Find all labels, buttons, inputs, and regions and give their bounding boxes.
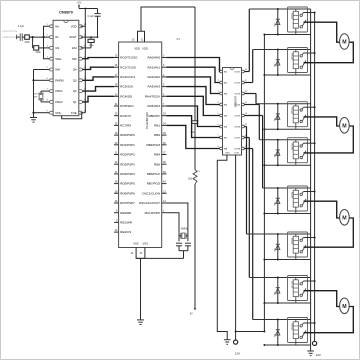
node A [31, 36, 33, 38]
wire contact rail B [314, 13, 316, 342]
relay RL3B [288, 102, 308, 130]
wire coil line relay 2 [253, 49, 311, 51]
svg-text:VRef: VRef [55, 57, 61, 61]
svg-text:OUT2: OUT2 [234, 83, 241, 85]
5V supply flag [190, 308, 196, 315]
wire RA4 to IN5 [167, 96, 220, 115]
svg-text:RB6/PGC: RB6/PGC [147, 172, 161, 176]
crystal X2 4MHz [179, 227, 188, 242]
svg-text:Q1: Q1 [73, 100, 77, 104]
wire StD to RC0 [83, 58, 115, 59]
wire coil return relay 5 [264, 213, 310, 215]
motor M1 [340, 34, 350, 50]
wire to IN- node [29, 36, 49, 38]
wire RA3 to IN4 [167, 87, 220, 105]
wire OUT1 routing [244, 9, 249, 72]
svg-text:RB0/INT: RB0/INT [148, 114, 160, 118]
wire PWDN [34, 79, 50, 81]
resistor R2 100k GS feedback [33, 37, 50, 54]
resistor R1 100k [24, 35, 30, 44]
wire RA1 to IN2 [167, 67, 220, 82]
wire ESt [81, 47, 91, 49]
wire coil return relay 8 [264, 344, 310, 346]
svg-text:0.1µF: 0.1µF [18, 25, 25, 28]
wire relay 7 common [304, 291, 340, 307]
relay RL8B [288, 318, 308, 346]
wire coil line relay 1 [249, 8, 310, 10]
wire coil return relay 3 [264, 128, 310, 130]
relay RL4B [288, 138, 308, 166]
svg-text:St/GT: St/GT [69, 35, 77, 39]
wire Q1 to RC4 [83, 96, 115, 102]
svg-text:OUT6: OUT6 [234, 127, 241, 129]
wire relay 4 NO contact [303, 142, 314, 144]
capacitor C4 [176, 243, 182, 251]
microcontroller U1 PIC16F877A [114, 38, 181, 248]
relay RL5B [288, 186, 308, 214]
svg-text:1N4: 1N4 [273, 118, 275, 121]
svg-text:1N4: 1N4 [273, 248, 275, 251]
svg-text:OUT1: OUT1 [234, 72, 241, 74]
relay RL1B [288, 7, 308, 35]
svg-text:Q3: Q3 [73, 78, 77, 82]
wire relay 4 common [304, 126, 354, 153]
svg-text:RE1/WR: RE1/WR [120, 221, 133, 225]
wire RA2 to IN3 [167, 77, 220, 94]
svg-text:RD2/PSP2: RD2/PSP2 [120, 153, 135, 157]
DTMF decoder U2 CM8870 [47, 11, 87, 116]
svg-text:INH: INH [55, 68, 60, 72]
wire relay 2 common [304, 42, 354, 63]
node 12V rail B [313, 341, 317, 345]
svg-text:0.1µF: 0.1µF [88, 16, 95, 18]
driver U3 ULN2803 [217, 68, 247, 156]
wire relay 6 NO contact [303, 237, 314, 239]
svg-text:RD7/PSP7: RD7/PSP7 [120, 201, 135, 205]
svg-text:1N4: 1N4 [273, 292, 275, 295]
wire relay 5 common [304, 201, 340, 218]
wire coil return relay 4 [264, 164, 310, 166]
svg-text:RB2: RB2 [154, 133, 160, 137]
svg-text:100k: 100k [35, 51, 41, 54]
wire 12V coil rail [263, 35, 265, 332]
svg-text:RL4B: RL4B [291, 144, 295, 151]
wire INH [34, 69, 50, 71]
ground [137, 320, 144, 325]
svg-text:RL1B: RL1B [291, 13, 295, 20]
svg-text:M: M [342, 123, 346, 129]
svg-text:TOE: TOE [71, 111, 77, 115]
svg-text:OSC2: OSC2 [55, 100, 63, 104]
svg-text:VSS: VSS [133, 242, 139, 246]
diode D5 1N4007 [273, 187, 280, 215]
svg-text:M: M [342, 215, 346, 221]
svg-text:VDD: VDD [134, 47, 140, 51]
svg-text:Input from the: Input from the [3, 30, 18, 33]
svg-text:IC1: IC1 [176, 38, 180, 41]
svg-text:RD1/PSP1: RD1/PSP1 [120, 143, 135, 147]
svg-text:RC5/SDO: RC5/SDO [120, 104, 134, 108]
wire crystal ground [179, 251, 188, 259]
svg-text:COM: COM [234, 152, 239, 154]
svg-text:Q2: Q2 [73, 89, 77, 93]
svg-text:4MHz: 4MHz [181, 227, 188, 231]
motor M2 [340, 118, 350, 134]
svg-text:RC6/TX: RC6/TX [120, 114, 131, 118]
svg-text:OSC1: OSC1 [55, 89, 63, 93]
wire TOE [81, 112, 86, 114]
svg-text:1N4: 1N4 [273, 334, 275, 337]
svg-text:IN+: IN+ [55, 24, 60, 28]
diode D2 1N4007 [273, 49, 280, 77]
wire St/GT [81, 36, 98, 38]
wire [194, 184, 196, 308]
wire relay 8 NO contact [303, 322, 314, 324]
wire OUT2 routing [244, 50, 252, 83]
wire RB1 to IN8 [167, 125, 220, 148]
relay RL7B [288, 276, 308, 304]
svg-text:RC1/T1OSI: RC1/T1OSI [120, 65, 136, 69]
svg-text:RE2/CS: RE2/CS [120, 230, 131, 234]
resistor R3 300k [88, 37, 95, 48]
wire coil line relay 8 [253, 319, 311, 321]
wire IN+ tie [44, 26, 50, 58]
svg-text:5V: 5V [190, 312, 193, 315]
diode D7 1N4007 [273, 277, 280, 305]
wire OUT4 routing [244, 105, 259, 140]
svg-text:GND: GND [225, 152, 230, 154]
motor M4 [340, 298, 350, 314]
wire OUT6 routing [244, 127, 246, 235]
wire VSS-TOE loop [62, 113, 82, 119]
wire MCLR to crystal [167, 213, 180, 233]
capacitor C2 0.1uF [88, 9, 101, 38]
wire Q4 to RC1 [83, 67, 115, 69]
wire Q2 to RC3 [83, 87, 115, 92]
wire [17, 36, 20, 38]
svg-text:PWDN: PWDN [55, 78, 63, 82]
svg-text:RD4/PSP4: RD4/PSP4 [120, 172, 135, 176]
motor M3 [340, 210, 350, 226]
diode D4 1N4007 [273, 139, 280, 167]
wire 12V feed [236, 331, 265, 333]
wire Q3 to RC2 [83, 77, 115, 80]
wire OUT3 routing [244, 94, 256, 104]
wire relay 1 NO contact [303, 12, 314, 14]
wire RB0 to IN7 [167, 116, 220, 138]
svg-text:RB7/PGD: RB7/PGD [147, 182, 161, 186]
svg-text:RL2B: RL2B [291, 53, 295, 60]
svg-text:StD: StD [72, 57, 77, 61]
svg-text:OSC2/CLKOUT: OSC2/CLKOUT [139, 201, 160, 205]
svg-text:12V: 12V [235, 351, 240, 355]
wire [194, 123, 196, 169]
diode D3 1N4007 [273, 103, 280, 131]
svg-text:RB3/PGM: RB3/PGM [146, 143, 160, 147]
wire coil return relay 2 [264, 74, 310, 76]
wire VDD rail down [194, 7, 196, 121]
wire ULN COM to 12V [235, 155, 237, 340]
wire relay 2 NO contact [303, 52, 314, 54]
svg-text:RA0/AN0: RA0/AN0 [147, 56, 160, 60]
svg-text:telephone line: telephone line [3, 36, 19, 39]
wire relay 8 common [304, 307, 354, 333]
svg-text:RB4: RB4 [154, 153, 160, 157]
wire VSS [34, 112, 50, 114]
wire coil return relay 7 [264, 302, 310, 304]
svg-text:RB5: RB5 [154, 162, 160, 166]
wire coil line relay 6 [247, 233, 311, 235]
relay RL2B [288, 48, 308, 76]
wire coil line relay 3 [256, 103, 311, 105]
wire coil line relay 5 [263, 187, 311, 189]
svg-text:OUT4: OUT4 [234, 105, 241, 107]
svg-text:GS: GS [55, 46, 59, 50]
svg-text:1N4: 1N4 [273, 23, 275, 26]
svg-text:RL8B: RL8B [291, 323, 295, 330]
svg-text:RL5B: RL5B [291, 192, 295, 199]
resistor R4 10k [188, 170, 201, 184]
svg-text:RB1: RB1 [154, 124, 160, 128]
ground [30, 118, 37, 123]
svg-text:1N4: 1N4 [273, 64, 275, 67]
wire relay 5 NO contact [303, 191, 314, 193]
wire coil return relay 6 [264, 259, 310, 261]
svg-text:VDD: VDD [71, 24, 77, 28]
wire relay 3 NO contact [303, 106, 314, 108]
svg-text:VSS: VSS [143, 242, 149, 246]
svg-text:RC0/T1OSO: RC0/T1OSO [120, 56, 138, 60]
svg-text:RD5/PSP5: RD5/PSP5 [120, 182, 135, 186]
svg-text:RA1/AN1: RA1/AN1 [147, 65, 160, 69]
wire +5V rail top [79, 8, 98, 10]
svg-text:CM8870: CM8870 [59, 11, 73, 15]
svg-text:Q4: Q4 [73, 68, 77, 72]
svg-text:MCLR/VPP: MCLR/VPP [145, 211, 160, 215]
svg-text:OUT3: OUT3 [234, 94, 241, 96]
relay RL6B [288, 232, 308, 260]
svg-text:RL3B: RL3B [291, 108, 295, 115]
svg-text:OSC1/CLKIN: OSC1/CLKIN [142, 191, 160, 195]
svg-text:RA4/T0CKI: RA4/T0CKI [145, 94, 160, 98]
wire relay 6 common [304, 218, 354, 247]
wire OUT8 routing [244, 149, 252, 320]
input terminal [16, 35, 18, 40]
svg-text:MHz: MHz [33, 97, 37, 99]
svg-text:RA2/AN2: RA2/AN2 [147, 75, 160, 79]
diode D6 1N4007 [273, 233, 280, 261]
svg-text:OUT8: OUT8 [234, 149, 241, 151]
+5V supply flag [77, 1, 82, 9]
ground [307, 351, 314, 356]
svg-text:100k: 100k [24, 41, 30, 44]
wire ULN GND [217, 155, 227, 339]
diode D8 1N4007 [273, 319, 280, 347]
wire OUT5 routing [244, 116, 262, 189]
svg-text:ESt: ESt [72, 46, 77, 50]
svg-text:OUT5: OUT5 [234, 116, 241, 118]
wire contact rail A [310, 9, 312, 351]
wire [22, 36, 25, 38]
node 12V [234, 340, 238, 344]
ground [224, 340, 231, 345]
wire coil return relay 1 [264, 34, 310, 36]
wire VDD pins 32 11 [132, 7, 195, 42]
svg-text:RD6/PSP6: RD6/PSP6 [120, 191, 135, 195]
svg-text:RA5/AN4: RA5/AN4 [147, 104, 160, 108]
svg-text:M: M [342, 304, 346, 310]
svg-text:VSS: VSS [55, 111, 61, 115]
svg-text:1N4: 1N4 [273, 202, 275, 205]
crystal X1 3.58MHz [33, 91, 49, 102]
capacitor C1 0.1uF [18, 25, 25, 41]
wire OSC2 to crystal [167, 203, 188, 233]
svg-text:RC4/SDI: RC4/SDI [120, 94, 132, 98]
wire VSS pins 12 31 [131, 248, 184, 320]
capacitor C5 [185, 243, 191, 251]
svg-text:12V: 12V [316, 353, 321, 357]
svg-text:RE0/RD: RE0/RD [120, 211, 132, 215]
wire relay 3 common [304, 117, 340, 126]
svg-text:RL6B: RL6B [291, 238, 295, 245]
svg-text:1N4: 1N4 [273, 154, 275, 157]
svg-text:M: M [342, 40, 346, 46]
svg-text:RD3/PSP3: RD3/PSP3 [120, 162, 135, 166]
ground bus wire [33, 70, 35, 118]
svg-text:RC2/CCP1: RC2/CCP1 [120, 75, 135, 79]
svg-text:+5V: +5V [77, 1, 82, 5]
wire relay 7 NO contact [303, 280, 314, 282]
svg-text:RD0/PSP0: RD0/PSP0 [120, 133, 135, 137]
svg-text:RL7B: RL7B [291, 281, 295, 288]
wire coil line relay 7 [249, 277, 310, 279]
wire coil line relay 4 [259, 139, 310, 141]
wire relay 1 common [304, 22, 340, 42]
svg-text:RC7/RX: RC7/RX [120, 124, 131, 128]
svg-text:OUT7: OUT7 [234, 138, 241, 140]
wire RA5 to IN6 [167, 106, 220, 127]
capacitor C3 10uF [190, 121, 198, 134]
svg-text:RC3/SCK: RC3/SCK [120, 85, 133, 89]
wire OUT7 routing [244, 138, 249, 278]
diode D1 1N4007 [273, 8, 280, 36]
wire VDD/TOE rail [81, 25, 86, 27]
svg-text:RA3/AN3: RA3/AN3 [147, 85, 160, 89]
svg-text:VDD: VDD [142, 47, 148, 51]
wire RA0 to IN1 [167, 58, 220, 72]
svg-text:IN-: IN- [55, 35, 59, 39]
